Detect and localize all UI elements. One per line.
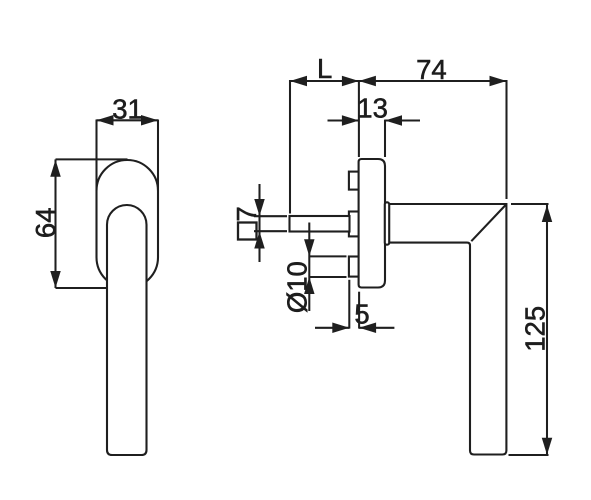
svg-text:5: 5: [354, 298, 369, 329]
svg-text:74: 74: [416, 54, 447, 85]
svg-text:13: 13: [357, 93, 388, 124]
svg-text:125: 125: [520, 306, 551, 352]
svg-text:7: 7: [231, 206, 262, 221]
svg-text:L: L: [317, 53, 332, 84]
svg-text:Ø10: Ø10: [281, 261, 312, 313]
svg-text:64: 64: [30, 208, 61, 239]
svg-text:31: 31: [112, 93, 143, 124]
